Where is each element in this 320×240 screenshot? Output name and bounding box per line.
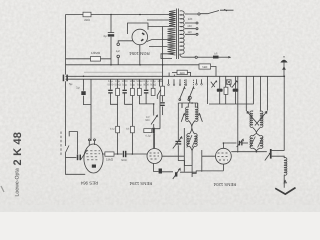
svg-text:0,1μ: 0,1μ	[110, 128, 115, 131]
svg-text:1MΩ: 1MΩ	[157, 80, 163, 83]
svg-text:0,5: 0,5	[214, 52, 218, 55]
svg-text:220: 220	[188, 18, 193, 21]
svg-text:4μF: 4μF	[116, 50, 121, 53]
svg-text:5000: 5000	[121, 159, 127, 162]
svg-text:5kΩ: 5kΩ	[202, 65, 207, 69]
svg-text:RENS 1294: RENS 1294	[129, 181, 152, 186]
svg-text:2 K 48: 2 K 48	[12, 132, 24, 166]
svg-text:1μ: 1μ	[76, 86, 80, 90]
svg-text:110: 110	[187, 31, 192, 34]
svg-text:15kΩ: 15kΩ	[106, 158, 114, 162]
svg-text:RENS 1204: RENS 1204	[213, 182, 236, 187]
svg-text:150: 150	[187, 25, 192, 28]
svg-text:0,1μ: 0,1μ	[146, 135, 151, 138]
svg-text:Loewe-Opta: Loewe-Opta	[15, 168, 21, 196]
svg-text:4μ: 4μ	[103, 34, 107, 38]
svg-text:2kΩ: 2kΩ	[180, 71, 185, 75]
svg-text:5μ: 5μ	[69, 82, 73, 86]
svg-text:2kΩ: 2kΩ	[84, 18, 90, 22]
svg-text:RGN 1054: RGN 1054	[129, 51, 150, 56]
svg-text:RES 964: RES 964	[80, 181, 98, 186]
svg-text:500: 500	[145, 119, 150, 122]
svg-text:1/2MΩ: 1/2MΩ	[91, 51, 101, 55]
